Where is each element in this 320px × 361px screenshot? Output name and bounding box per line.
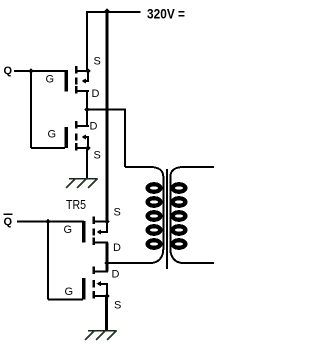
transformer TR secondary top lead [183, 166, 214, 168]
svg-text:Q: Q [4, 65, 13, 77]
junction dot: upper phase node [84, 107, 90, 113]
transistor Q4 (lower low-side) source-body junction dot [104, 293, 109, 298]
wire: 320V supply rail [86, 11, 141, 13]
wire: Q to Q1 gate [14, 70, 66, 72]
transistor Q1 (upper high-side) bottom lead [77, 90, 89, 92]
wire: main bus 320V down to TR5 source [106, 11, 109, 222]
transformer TR primary top lead [125, 166, 151, 168]
wire: Q-bar to TR5 gate [17, 221, 84, 223]
junction dot: rail / bus [104, 8, 110, 14]
ground (upper bridge leg) [66, 179, 98, 189]
transistor Q4 (lower low-side) channel contacts [93, 267, 95, 299]
transistor Q1 (upper high-side) gate bar [65, 70, 69, 91]
svg-text:S: S [114, 300, 121, 312]
svg-text:S: S [94, 150, 101, 162]
svg-text:D: D [112, 269, 120, 281]
svg-text:Q: Q [4, 216, 13, 228]
transistor Q1 (upper high-side) top lead [77, 70, 89, 72]
wire: Q2 source to ground [86, 148, 88, 179]
svg-text:G: G [65, 286, 74, 298]
transistor Q1 (upper high-side) channel contacts [75, 66, 77, 93]
wire: TR5 drain down to lower phase node [106, 243, 109, 272]
wire: Q-bar branch down and to lower MOSFET gate [48, 222, 83, 300]
transistor Q2 (upper low-side) source-body junction dot [85, 145, 90, 150]
wire: phase node to transformer primary top [87, 109, 125, 168]
wire: Q4 source to ground [105, 296, 108, 331]
transistor Q2 (upper low-side) bottom lead [77, 147, 89, 149]
transistor Q2 (upper low-side) channel contacts [75, 121, 77, 150]
transistor TR5 (lower high-side) top lead [95, 221, 109, 223]
ground (lower bridge leg) [85, 331, 117, 341]
wire: Q1 drain down to phase node [86, 91, 88, 126]
wire: Q branch down and to Q2 gate [31, 71, 65, 148]
transistor TR5 (lower high-side) source-body junction dot [104, 219, 109, 224]
transistor Q1 (upper high-side) source-body junction dot [85, 68, 90, 73]
svg-text:D: D [113, 242, 121, 254]
transistor TR5 (lower high-side) bottom lead [95, 242, 109, 244]
transformer TR secondary winding [170, 167, 185, 263]
transistor Q1 (upper high-side) body arrow [82, 71, 89, 84]
junction dot: Q-bar branch [45, 219, 51, 225]
svg-text:S: S [94, 56, 101, 68]
svg-text:G: G [46, 74, 55, 86]
transformer TR primary winding [148, 167, 164, 263]
transistor Q4 (lower low-side) body arrow [97, 281, 109, 296]
svg-text:D: D [92, 88, 100, 100]
transistor Q4 (lower low-side) bottom lead [95, 295, 109, 297]
transistor Q4 (lower low-side) gate bar [82, 278, 86, 299]
svg-text:320V =: 320V = [147, 6, 185, 22]
junction dot: Q branch [28, 68, 34, 74]
svg-text:G: G [64, 224, 73, 236]
wire: transformer primary bottom to lower phase node [107, 262, 152, 264]
wire: rail down to upper MOSFET source [86, 11, 88, 71]
transistor Q2 (upper low-side) top lead [77, 125, 89, 127]
transistor TR5 (lower high-side) channel contacts [93, 217, 95, 245]
transformer TR secondary bottom lead [183, 262, 214, 264]
transistor TR5 (lower high-side) gate bar [82, 221, 86, 242]
transistor TR5 (lower high-side) body arrow [97, 222, 109, 235]
junction dot: lower phase node [104, 260, 110, 266]
svg-text:G: G [48, 129, 57, 141]
svg-text:D: D [90, 121, 98, 133]
transformer core [166, 169, 168, 269]
svg-text:S: S [114, 207, 121, 219]
transistor Q2 (upper low-side) body arrow [82, 134, 89, 148]
node Q-bar (drive signal) [4, 213, 13, 228]
transistor Q4 (lower low-side) top lead [95, 271, 109, 273]
svg-text:TR5: TR5 [66, 198, 86, 212]
transistor Q2 (upper low-side) gate bar [65, 127, 69, 148]
